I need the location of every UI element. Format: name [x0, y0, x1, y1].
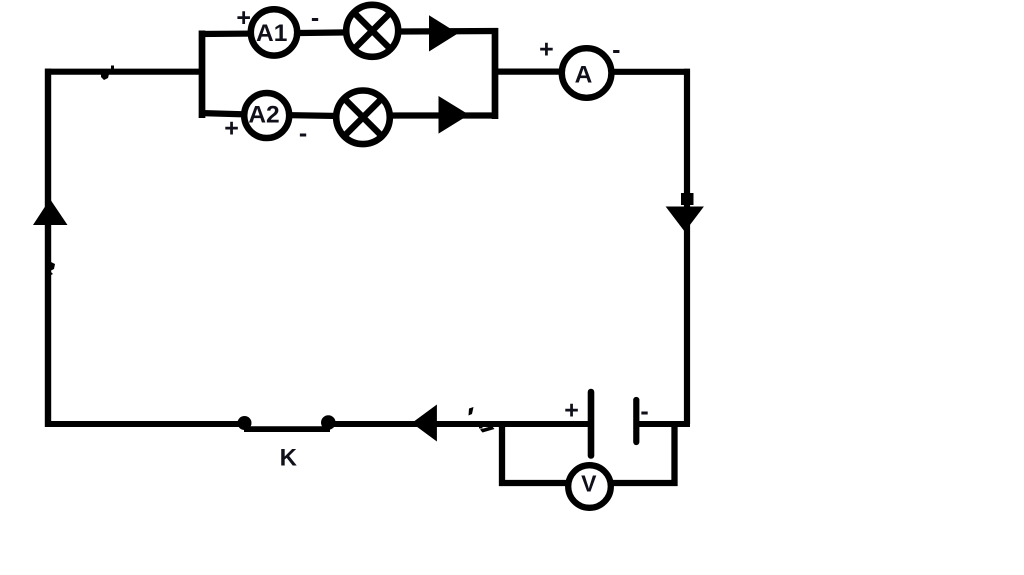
svg-text:+: + [224, 115, 239, 143]
wire top branch [199, 31, 498, 34]
wire ammeter A to right corner [611, 69, 690, 75]
artifact tick on top wire [101, 66, 114, 81]
node: parallel left bus [199, 31, 206, 119]
arrow right on bottom branch [439, 96, 470, 134]
svg-text:A1: A1 [256, 20, 287, 47]
battery positive plate [588, 392, 595, 456]
svg-text:-: - [612, 36, 620, 64]
wire bottom horizontal middle [328, 421, 589, 427]
svg-text:+: + [236, 4, 251, 32]
wire bottom horizontal left [45, 421, 246, 427]
ammeter A1 [251, 9, 297, 55]
lamp L2 [336, 91, 390, 145]
artifact blob above down arrow [681, 193, 694, 205]
wire right vertical [684, 69, 690, 424]
battery negative plate [633, 400, 639, 442]
arrow right on top branch [429, 15, 458, 51]
svg-text:-: - [311, 4, 319, 32]
switch K [238, 415, 336, 430]
svg-text:V: V [581, 471, 597, 497]
ammeter A [562, 48, 612, 98]
svg-text:A: A [575, 61, 593, 88]
wire bottom branch [199, 113, 498, 116]
artifact smudge below bottom wire [479, 426, 495, 433]
arrow left on bottom wire [412, 405, 437, 442]
svg-text:+: + [539, 36, 554, 64]
svg-text:K: K [280, 444, 298, 471]
svg-text:+: + [564, 397, 579, 425]
wire voltmeter loop left [502, 424, 568, 483]
arrow up on left wire [33, 199, 68, 225]
node: parallel right bus [492, 28, 499, 119]
wire battery to right corner [639, 421, 690, 427]
artifact tick on left wire [49, 262, 55, 276]
artifact apostrophe above bottom wire [469, 407, 474, 416]
svg-text:-: - [299, 120, 307, 148]
lamp L1 [346, 5, 398, 57]
wire top-left horizontal [45, 69, 205, 75]
wire voltmeter loop right [611, 424, 675, 483]
arrow down on right wire [666, 207, 704, 232]
ammeter A2 [244, 93, 289, 138]
voltmeter V [568, 465, 611, 508]
wire right bus to ammeter A [495, 68, 563, 74]
svg-text:A2: A2 [248, 101, 279, 128]
wire left vertical [45, 69, 51, 427]
